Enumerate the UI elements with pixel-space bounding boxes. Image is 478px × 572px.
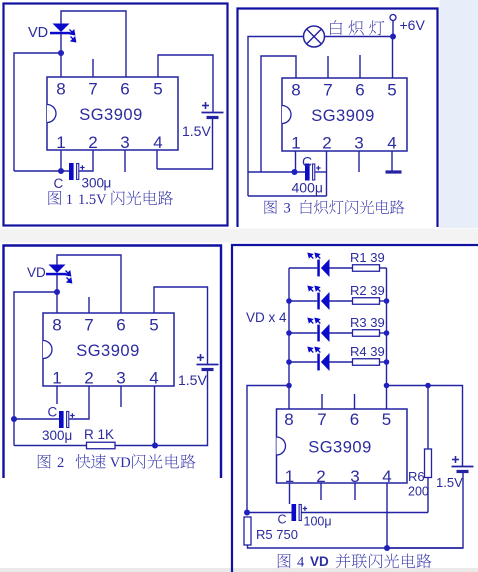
pin 6 number (fig2): [116, 316, 125, 335]
pin 6 stub (fig3): [359, 55, 361, 78]
svg-text:6: 6: [120, 80, 129, 99]
wire row 2 anode to resistor (fig4): [330, 300, 353, 302]
wire battery - to bottom rail (fig2): [155, 370, 208, 446]
wire row 4 resistor to rail (fig4): [380, 361, 387, 363]
wire left rail to R5 branch (fig4): [247, 386, 289, 513]
wire pin 2 lead (fig3): [326, 151, 328, 196]
svg-text:2: 2: [84, 369, 93, 388]
wire pin 4 lead (fig2): [154, 386, 156, 446]
node right rail supply tap (fig4): [384, 383, 390, 389]
node right rail row3 (fig4): [384, 330, 390, 336]
caption fig1: tu1 1.5V flash circuit: [48, 191, 173, 208]
resistor R1 1K body (fig2): [87, 442, 116, 449]
pin 7 number (fig2): [84, 316, 93, 335]
wire R5 bottom to rail (fig4): [248, 545, 464, 548]
pin 7 stub (fig2): [88, 297, 90, 313]
wire R6 top lead (fig4): [427, 386, 429, 450]
label R3 39 (fig4): [350, 315, 385, 330]
label R 1K (fig2): [84, 427, 114, 442]
svg-text:7: 7: [323, 81, 332, 100]
pin 8 number (fig4): [284, 410, 293, 429]
pin 6 number (fig1): [120, 80, 129, 99]
svg-text:5: 5: [387, 81, 396, 100]
svg-text:μ: μ: [104, 176, 112, 191]
label C (fig2): [48, 405, 58, 420]
wire lamp left down loop (fig3): [248, 37, 304, 197]
node right rail row4 (fig4): [384, 359, 390, 365]
svg-text:4: 4: [149, 369, 158, 388]
resistor R5 750 body (fig4): [244, 517, 251, 545]
resistor R3 39 body (fig4): [353, 330, 380, 337]
pin 2 number (fig4): [316, 467, 325, 486]
wire pin 4 to bottom rail (fig4): [386, 483, 388, 548]
wire left rail to capacitor (fig1): [14, 170, 69, 172]
pin 1 number (fig2): [52, 369, 61, 388]
wire pin 4 lead (fig1): [156, 150, 158, 169]
pin 7 stub (fig4): [321, 394, 323, 409]
svg-text:R4 39: R4 39: [350, 344, 385, 359]
wire battery - to pin 4 (fig1): [157, 118, 213, 170]
IC U4 label SG3909 (fig4): [308, 439, 372, 457]
svg-text:3: 3: [116, 369, 125, 388]
pin 2 stub (fig4): [320, 483, 322, 500]
wire pin 5 to battery + (fig2): [154, 287, 208, 364]
wire capacitor to pin 2 (fig3): [315, 171, 327, 173]
wire bottom rail right (fig2): [115, 445, 155, 447]
IC U1 label SG3909 (fig1): [79, 106, 143, 124]
svg-text:C: C: [48, 405, 58, 420]
node bottom rail junction (fig4): [384, 545, 390, 551]
svg-text:VD x 4: VD x 4: [246, 310, 287, 325]
battery 1.5V (fig2): [197, 354, 219, 370]
wire LED cathode to pin 8 (fig2): [56, 275, 58, 313]
label 300u (fig2): [42, 428, 72, 443]
svg-text:VD: VD: [110, 455, 131, 471]
svg-text:C: C: [278, 513, 287, 527]
svg-text:R6: R6: [408, 469, 425, 484]
wire row 2 resistor to rail (fig4): [380, 300, 387, 302]
wire row 1 cathode (fig4): [289, 267, 317, 269]
label R5 750 (fig4): [256, 527, 298, 542]
node R5 top (fig4): [244, 510, 250, 516]
pin 2 number (fig2): [84, 369, 93, 388]
wire pin 1 lead (fig3): [295, 151, 297, 172]
battery 1.5V (fig1): [202, 102, 224, 118]
svg-text:SG3909: SG3909: [308, 439, 372, 457]
label lamp baizhideng (fig3): [330, 20, 384, 35]
label 1.5V (fig1): [182, 123, 211, 139]
wire row 1 resistor to rail (fig4): [380, 267, 387, 269]
LED VD4 (fig4): [308, 347, 329, 371]
svg-text:1.5V: 1.5V: [182, 123, 211, 139]
svg-text:4: 4: [153, 133, 162, 152]
resistor R2 39 body (fig4): [353, 298, 380, 305]
svg-text:7: 7: [84, 316, 93, 335]
pin 8 number (fig1): [56, 80, 65, 99]
label 200 (fig4): [408, 485, 429, 499]
wire pin 8 loop (fig3): [261, 56, 296, 172]
wire LED cathode to pin 8 (fig1): [60, 34, 62, 77]
caption fig4: tu4 VD parallel flash circuit: [278, 554, 432, 571]
figure 4 border frame: [232, 245, 478, 572]
svg-text:1: 1: [56, 133, 65, 152]
svg-text:4: 4: [387, 134, 396, 153]
pin 7 stub (fig3): [327, 56, 329, 78]
svg-text:7: 7: [317, 410, 326, 429]
node capacitor junction (fig3): [292, 169, 298, 175]
node capacitor junction (fig1): [58, 168, 64, 174]
label 300u (fig1): [82, 176, 112, 191]
label R4 39 (fig4): [350, 344, 385, 359]
battery 1.5V (fig4): [452, 456, 474, 472]
svg-text:SG3909: SG3909: [311, 107, 375, 125]
wire R5 node to capacitor (fig4): [247, 512, 292, 514]
svg-text:1: 1: [66, 192, 73, 208]
figure 1 border frame: [4, 4, 228, 226]
wire pin 1 lead (fig2): [56, 386, 58, 404]
wire pin 1 lead (fig4): [289, 483, 291, 504]
wire +6V to node (fig3): [392, 21, 394, 37]
wire pin 1 lead (fig1): [60, 150, 62, 171]
wire pin 4 to ground (fig3): [391, 151, 393, 171]
wire row 3 cathode (fig4): [289, 332, 317, 334]
wire row 1 anode to resistor (fig4): [330, 267, 353, 269]
svg-text:400μ: 400μ: [292, 180, 323, 196]
svg-text:6: 6: [350, 410, 359, 429]
pin 3 number (fig1): [120, 133, 129, 152]
IC U4 SG3909 body (fig4): [277, 409, 408, 483]
LED VD1 (fig4): [308, 253, 329, 277]
pin 4 number (fig1): [153, 133, 162, 152]
svg-text:5: 5: [153, 80, 162, 99]
IC U3 SG3909 body (fig3): [282, 78, 407, 151]
pin 7 number (fig3): [323, 81, 332, 100]
wire capacitor to pin 2 (fig2): [69, 386, 89, 419]
caption fig2: tu2 fast VD flash circuit: [38, 454, 196, 471]
node left rail row4 (fig4): [286, 359, 292, 365]
pin 3 number (fig2): [116, 369, 125, 388]
pin 6 stub (fig4): [354, 394, 356, 409]
LED VD (fig1): [50, 24, 76, 42]
svg-text:8: 8: [284, 410, 293, 429]
svg-text:SG3909: SG3909: [79, 106, 143, 124]
wire LED top to pin 6 (fig2): [57, 255, 121, 313]
svg-text:2: 2: [322, 134, 331, 153]
wire junction to left rail down to cap (fig1): [14, 53, 61, 171]
IC U2 SG3909 body (fig2): [43, 313, 174, 386]
label VD (fig2): [27, 265, 46, 280]
svg-text:3: 3: [354, 134, 363, 153]
pin 6 number (fig4): [350, 410, 359, 429]
wire row 4 cathode (fig4): [289, 361, 317, 363]
pin 3 stub (fig1): [124, 150, 126, 172]
pin 1 number (fig3): [291, 134, 300, 153]
terminal +6V (fig3): [390, 15, 396, 21]
lamp HL (fig3): [304, 26, 325, 47]
LED VD (fig2): [46, 265, 72, 283]
wire cap node rail (fig3): [248, 171, 305, 173]
svg-text:6: 6: [116, 316, 125, 335]
pin 5 number (fig2): [149, 316, 158, 335]
svg-text:6: 6: [355, 81, 364, 100]
pin 4 number (fig4): [382, 467, 391, 486]
LED VD3 (fig4): [308, 318, 329, 342]
resistor R1 39 body (fig4): [353, 265, 380, 272]
wire left node to capacitor (fig2): [14, 418, 59, 420]
wire left LED rail to pin 8 (fig4): [288, 268, 290, 409]
pin 4 number (fig2): [149, 369, 158, 388]
label +6V (fig3): [400, 17, 426, 33]
svg-text:R2 39: R2 39: [350, 283, 385, 298]
IC U2 label SG3909 (fig2): [76, 342, 140, 360]
pin 4 number (fig3): [387, 134, 396, 153]
svg-text:1: 1: [291, 134, 300, 153]
resistor R6 200 body (fig4): [425, 449, 432, 478]
svg-text:C: C: [54, 176, 64, 191]
capacitor C2 300u (fig2): [59, 411, 75, 428]
node R6 tap (fig4): [425, 383, 431, 389]
svg-text:VD: VD: [28, 25, 48, 41]
resistor R4 39 body (fig4): [353, 359, 380, 366]
pin 3 stub (fig2): [120, 386, 122, 407]
pin 5 number (fig1): [153, 80, 162, 99]
svg-text:100μ: 100μ: [304, 515, 332, 529]
svg-text:1: 1: [52, 369, 61, 388]
label VD x 4 (fig4): [246, 310, 287, 325]
svg-text:SG3909: SG3909: [76, 342, 140, 360]
pin 2 number (fig3): [322, 134, 331, 153]
wire row 3 anode to resistor (fig4): [330, 332, 353, 334]
svg-text:R1 39: R1 39: [350, 250, 385, 265]
pin 5 number (fig4): [382, 410, 391, 429]
svg-text:8: 8: [291, 81, 300, 100]
svg-text:8: 8: [52, 316, 61, 335]
svg-text:300μ: 300μ: [42, 428, 72, 443]
LED VD2 (fig4): [308, 286, 329, 310]
wire LED top to pin 6 (fig1): [61, 11, 126, 77]
wire capacitor to R6 lead (fig4): [302, 512, 429, 514]
svg-text:5: 5: [149, 316, 158, 335]
pin 8 number (fig2): [52, 316, 61, 335]
label VD (fig1): [28, 25, 48, 41]
label R2 39 (fig4): [350, 283, 385, 298]
wire row 2 cathode (fig4): [289, 300, 317, 302]
svg-text:R 1K: R 1K: [84, 427, 114, 442]
IC U1 SG3909 body (fig1): [47, 77, 178, 150]
wire supply rail to battery (fig4): [387, 386, 463, 467]
svg-text:R3 39: R3 39: [350, 315, 385, 330]
svg-text:3: 3: [284, 201, 291, 217]
svg-text:3: 3: [120, 133, 129, 152]
caption fig3: tu3 incandescent flash circuit: [264, 200, 404, 217]
label C (fig3): [302, 154, 312, 170]
wire bottom rail left (fig2): [14, 445, 87, 447]
svg-text:VD: VD: [310, 554, 329, 569]
wire junction to left rail (fig2): [14, 292, 57, 446]
wire battery - down to bottom rail (fig4): [387, 472, 463, 549]
wire cap loop bottom (fig3): [248, 195, 327, 197]
pin 5 number (fig3): [387, 81, 396, 100]
label 400u (fig3): [292, 180, 323, 196]
wire R6 bottom lead (fig4): [427, 478, 429, 513]
capacitor C4 100u (fig4): [292, 504, 308, 521]
svg-text:VD: VD: [27, 265, 46, 280]
svg-text:1.5V: 1.5V: [78, 192, 107, 208]
ground (fig3): [386, 170, 402, 173]
pin 1 number (fig4): [285, 467, 294, 486]
node left rail row3 (fig4): [286, 330, 292, 336]
svg-text:4: 4: [297, 555, 305, 571]
label C (fig1): [54, 176, 64, 191]
IC U3 label SG3909 (fig3): [311, 107, 375, 125]
svg-text:1.5V: 1.5V: [178, 372, 207, 388]
svg-text:200: 200: [408, 485, 429, 499]
svg-text:+6V: +6V: [400, 17, 426, 33]
label C (fig4): [278, 513, 287, 527]
svg-text:7: 7: [88, 80, 97, 99]
capacitor C3 400u (fig3): [305, 164, 321, 181]
pin 3 number (fig4): [350, 467, 359, 486]
label R1 39 (fig4): [350, 250, 385, 265]
node LED-left junction (fig1): [58, 50, 64, 56]
svg-text:8: 8: [56, 80, 65, 99]
node supply junction (fig3): [390, 34, 396, 40]
node left rail R5 tap (fig4): [286, 383, 292, 389]
pin 7 number (fig4): [317, 410, 326, 429]
pin 7 number (fig1): [88, 80, 97, 99]
svg-text:2: 2: [88, 133, 97, 152]
wire row 3 resistor to rail (fig4): [380, 332, 387, 334]
pin 2 number (fig1): [88, 133, 97, 152]
wire row 4 anode to resistor (fig4): [330, 361, 353, 363]
label 1.5V (fig4): [436, 475, 463, 490]
svg-text:2: 2: [57, 455, 64, 471]
node left rail row2 (fig4): [286, 298, 292, 304]
node LED junction (fig2): [54, 289, 60, 295]
wire pin 5 to battery + (fig1): [158, 55, 213, 112]
wire right rail to pin 5 (fig4): [386, 268, 388, 409]
pin 3 stub (fig3): [358, 151, 360, 172]
pin 8 number (fig3): [291, 81, 300, 100]
figure 2 border frame: [4, 246, 222, 479]
svg-text:C: C: [302, 154, 312, 170]
figure 3 border frame: [238, 9, 438, 228]
pin 3 stub (fig4): [354, 483, 356, 500]
label 1.5V (fig2): [178, 372, 207, 388]
svg-text:1.5V: 1.5V: [436, 475, 463, 490]
pin 6 number (fig3): [355, 81, 364, 100]
svg-text:300: 300: [82, 176, 105, 191]
wire lamp right to supply node (fig3): [325, 36, 394, 38]
node capacitor junction (fig2): [11, 416, 17, 422]
svg-text:5: 5: [382, 410, 391, 429]
svg-text:R5 750: R5 750: [256, 527, 298, 542]
pin 1 number (fig1): [56, 133, 65, 152]
node bottom junction (fig2): [152, 443, 158, 449]
pin 7 stub (fig1): [92, 59, 94, 77]
pin 3 number (fig3): [354, 134, 363, 153]
wire capacitor to pin 2 (fig1): [79, 150, 93, 171]
label R6 (fig4): [408, 469, 425, 484]
capacitor C1 300u (fig1): [69, 163, 85, 180]
node right rail row2 (fig4): [384, 298, 390, 304]
label 100u (fig4): [304, 515, 332, 529]
wire supply node to pin 5 (fig3): [392, 37, 394, 79]
